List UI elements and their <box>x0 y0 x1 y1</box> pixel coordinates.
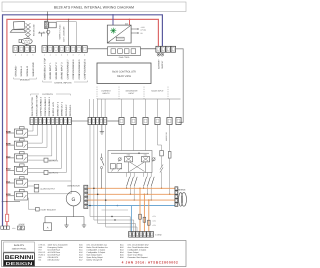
svg-text:SUPPLY: SUPPLY <box>161 60 164 69</box>
ground symbol 1 <box>64 223 68 228</box>
svg-text:Mains Circuit Breaker Aux: Mains Circuit Breaker Aux <box>87 246 108 249</box>
wire relay AC3 contacts <box>28 155 52 157</box>
svg-text:KA6: KA6 <box>79 246 83 249</box>
svg-text:BA1: BA1 <box>120 243 124 246</box>
svg-text:AC1: AC1 <box>6 180 11 183</box>
svg-text:GEN CONTACTOR: GEN CONTACTOR <box>31 97 34 116</box>
legend box <box>2 241 187 267</box>
wires CT secondary returns <box>90 217 130 232</box>
arrow 0V output <box>131 32 137 34</box>
svg-text:KA7: KA7 <box>79 259 83 262</box>
svg-text:FUSE 4: FUSE 4 <box>39 254 45 257</box>
contactor coil KG <box>142 157 150 162</box>
logo BERNINI DESIGN <box>4 253 35 266</box>
panel name cell <box>4 242 35 252</box>
svg-text:KM1: KM1 <box>127 154 131 157</box>
svg-text:SUPPLY +12VDC: SUPPLY +12VDC <box>59 24 62 40</box>
svg-text:BA3: BA3 <box>120 248 124 251</box>
wire RS-485 zigzag link <box>26 23 31 37</box>
relay KG6 <box>20 189 25 191</box>
CT1 <box>139 214 142 219</box>
svg-text:KM6: KM6 <box>6 130 11 133</box>
wire battery negative rail (blue) <box>3 15 163 226</box>
contactor box <box>108 151 152 173</box>
svg-text:Aux. Circuit Breaker drive: Aux. Circuit Breaker drive <box>128 246 149 249</box>
wire interlock cross <box>130 162 145 172</box>
svg-text:Configurable -2 Output: Configurable -2 Output <box>87 251 106 254</box>
wire CT drop L2 <box>144 194 146 196</box>
wire drop from negative rail <box>47 14 49 16</box>
svg-text:CURRENT: CURRENT <box>101 90 111 93</box>
svg-text:KM5: KM5 <box>6 143 11 146</box>
wire negative tap to PSU <box>112 14 114 16</box>
wire cord to battery terminals <box>141 48 156 50</box>
svg-text:BA2: BA2 <box>120 246 124 249</box>
svg-text:EMERGENCY STOP: EMERGENCY STOP <box>43 57 46 79</box>
svg-text:CONFIGURABLE 5: CONFIGURABLE 5 <box>78 59 81 80</box>
svg-text:Gen. Circuit Breaker Aux: Gen. Circuit Breaker Aux <box>87 243 107 246</box>
svg-text:160kVA PANEL: 160kVA PANEL <box>12 248 28 251</box>
terminal strip outputs <box>30 118 34 125</box>
svg-text:Spare Relay Output: Spare Relay Output <box>87 256 104 259</box>
svg-text:SIGNAL A: SIGNAL A <box>20 66 23 77</box>
svg-text:KM: KM <box>39 256 42 259</box>
wire battery to controller <box>176 49 183 123</box>
svg-text:SPARE OUT 2: SPARE OUT 2 <box>56 101 59 116</box>
wire relay AC1 contacts <box>28 180 72 182</box>
terminal strip TB2 (digital inputs) <box>42 46 47 53</box>
svg-text:FB1-2-3: FB1-2-3 <box>39 251 46 254</box>
svg-text:BATTERY: BATTERY <box>158 59 161 69</box>
wire positive tap to PSU <box>129 19 131 21</box>
alarm output contacts <box>34 184 39 187</box>
svg-text:BATT. CHARGER: BATT. CHARGER <box>63 26 66 42</box>
svg-text:RS-485 LINK: RS-485 LINK <box>32 24 35 36</box>
svg-text:KA2: KA2 <box>79 251 83 254</box>
wire contactor top bus <box>111 152 149 154</box>
svg-text:AC3: AC3 <box>6 155 11 158</box>
svg-text:CONFIGURABLE 1: CONFIGURABLE 1 <box>48 96 51 116</box>
svg-text:6A 10X38 Fuse: 6A 10X38 Fuse <box>48 254 61 257</box>
bracket DIGITAL INPUTS <box>43 81 53 83</box>
terminal block bottom-left <box>1 226 4 229</box>
relay KG2 <box>20 164 25 166</box>
svg-text:OUTPUT 3: OUTPUT 3 <box>49 159 58 162</box>
svg-text:ALARM OUTPUT: ALARM OUTPUT <box>40 187 56 190</box>
terminal strip load <box>129 232 132 238</box>
svg-text:SPARE INPUT 2: SPARE INPUT 2 <box>55 62 58 80</box>
svg-text:KA1: KA1 <box>79 248 83 251</box>
svg-text:G: G <box>72 197 76 203</box>
svg-text:PWR CORD: PWR CORD <box>119 56 130 59</box>
svg-text:INPUT: INPUT <box>129 92 136 95</box>
svg-text:Spare Output: Spare Output <box>128 251 139 254</box>
antenna symbol <box>38 32 45 34</box>
svg-text:GENERATOR: GENERATOR <box>67 184 80 187</box>
wires terminals to contactor box <box>121 125 123 151</box>
svg-text:BA6: BA6 <box>120 256 124 259</box>
fuse F1 on positive rail <box>6 214 9 221</box>
svg-text:Battery Charge Off: Battery Charge Off <box>87 259 103 262</box>
relay KM6 <box>20 127 25 129</box>
battery posts <box>157 53 160 56</box>
svg-text:GEN.BLOCK: GEN.BLOCK <box>48 256 60 259</box>
wire CT drop L1 <box>139 188 141 190</box>
svg-text:A: A <box>47 226 49 229</box>
screw terminals row <box>119 118 124 125</box>
bracket MODBUS <box>14 78 21 80</box>
wire phase L1 (orange) <box>88 187 175 189</box>
svg-text:KA3: KA3 <box>79 254 83 257</box>
CT2 <box>143 217 146 222</box>
svg-text:START REQUEST: START REQUEST <box>40 208 56 211</box>
svg-text:MAINS CONTACTOR: MAINS CONTACTOR <box>35 95 38 117</box>
wire relay KG2 contacts <box>28 167 62 169</box>
wire neutral (blue) <box>88 205 175 207</box>
svg-text:F67: F67 <box>39 248 42 251</box>
terminal strip TB1 (modbus) <box>13 46 18 53</box>
contactor KM main contacts <box>126 173 128 177</box>
title block <box>2 2 186 12</box>
svg-text:DIGITAL INPUTS: DIGITAL INPUTS <box>55 82 72 85</box>
laptop PC <box>10 21 25 32</box>
svg-text:Be28 ATS: Be28 ATS <box>14 244 25 247</box>
arrow +12V output <box>131 28 137 30</box>
resistor in PSU <box>116 37 124 40</box>
svg-text:CONFIGURABLE 6: CONFIGURABLE 6 <box>72 59 75 80</box>
svg-text:OUTPUTS: OUTPUTS <box>42 93 53 96</box>
svg-text:KM1: KM1 <box>39 246 43 249</box>
svg-text:GROUND 1: GROUND 1 <box>69 104 72 116</box>
ground symbol 2 <box>82 223 86 228</box>
LED indicator green <box>110 28 116 34</box>
svg-text:KA5: KA5 <box>79 243 83 246</box>
wire tap from positive rail <box>68 19 70 21</box>
svg-text:MAINS: MAINS <box>178 188 185 191</box>
wires sense drops <box>89 125 91 217</box>
mains cable gland <box>179 193 183 207</box>
wire generator earth <box>73 206 75 217</box>
svg-text:Gen. Circuit Breaker drive: Gen. Circuit Breaker drive <box>128 243 149 246</box>
svg-text:REAR VIEW: REAR VIEW <box>117 75 132 78</box>
wire converter to terminal <box>56 22 76 46</box>
svg-text:OUTPUT 4: OUTPUT 4 <box>49 172 58 175</box>
svg-text:BE28 ATS PANEL INTERNAL WIRING: BE28 ATS PANEL INTERNAL WIRING DIAGRAM <box>54 6 134 10</box>
wire neutral to load <box>117 205 119 207</box>
svg-text:SHIELD GND: SHIELD GND <box>32 62 35 76</box>
svg-text:DESIGN: DESIGN <box>6 261 33 266</box>
surge arrester A1 <box>44 223 52 231</box>
aux contact left <box>118 158 121 161</box>
terminal strip mains <box>175 187 178 191</box>
svg-text:GROUND 2: GROUND 2 <box>65 104 68 116</box>
svg-text:CONFIGURABLE 4: CONFIGURABLE 4 <box>84 59 87 80</box>
svg-text:KG6: KG6 <box>6 193 11 196</box>
generator G1 <box>66 191 81 206</box>
wire relay KM6 contacts <box>28 130 34 132</box>
wire relay KM5 contacts <box>28 142 43 144</box>
ground at sense terminal <box>101 125 103 130</box>
output 4 indicator <box>28 172 45 174</box>
svg-text:4 JAN 2016: ATSBC2800002: 4 JAN 2016: ATSBC2800002 <box>122 261 179 265</box>
wires relay bus verticals <box>32 125 34 132</box>
svg-text:BA5: BA5 <box>120 254 124 257</box>
svg-text:SIGNAL B: SIGNAL B <box>26 66 29 77</box>
terminal strip sense <box>88 118 91 125</box>
wire positive rail below fuse <box>6 222 8 227</box>
svg-text:Generator Start Request: Generator Start Request <box>128 256 149 259</box>
power cord socket <box>108 47 141 56</box>
wire CT drop L3 <box>148 199 150 201</box>
svg-text:KG2: KG2 <box>6 168 11 171</box>
wire battery positive rail (red) <box>7 19 159 214</box>
svg-text:KA4: KA4 <box>79 256 83 259</box>
gen sense contact <box>157 142 159 145</box>
selector switch <box>101 154 103 158</box>
svg-text:KG1: KG1 <box>144 154 147 157</box>
CT3 <box>148 220 151 225</box>
svg-text:INPUTS: INPUTS <box>103 92 111 95</box>
svg-text:Main Output Alarm: Main Output Alarm <box>87 254 103 257</box>
svg-text:MAINS INPUT: MAINS INPUT <box>151 90 164 93</box>
svg-text:SPARE INPUT 1: SPARE INPUT 1 <box>49 62 52 80</box>
svg-text:4A 10X38 Fuse: 4A 10X38 Fuse <box>48 251 61 254</box>
svg-text:SPARE INPUT 3: SPARE INPUT 3 <box>61 62 64 80</box>
svg-text:Configurable -3 Output: Configurable -3 Output <box>128 248 147 251</box>
wire phase L2 (orange) <box>88 193 175 195</box>
svg-text:GROUND -: GROUND - <box>14 65 17 77</box>
svg-text:6A 10X38 Fuse: 6A 10X38 Fuse <box>48 248 61 251</box>
svg-text:Configurable -1 Output: Configurable -1 Output <box>87 248 106 251</box>
wire sense strip to singles <box>107 120 119 122</box>
svg-text:BA4: BA4 <box>120 251 124 254</box>
bracket input groups <box>96 87 98 100</box>
terminal block battery <box>156 46 161 52</box>
aux contact blocks <box>111 164 116 169</box>
svg-text:MODBUS: MODBUS <box>20 79 30 82</box>
connector DB9 to PC <box>21 38 32 44</box>
svg-text:CONFIGURABLE 2: CONFIGURABLE 2 <box>44 96 47 116</box>
wire to power cord <box>88 48 108 50</box>
junction dots on phases <box>93 188 95 190</box>
relay KM5 <box>20 139 25 141</box>
start request contact <box>28 198 36 209</box>
RS485 converter U2 <box>45 21 47 23</box>
output 3 indicator <box>28 159 45 161</box>
svg-text:Emergency Switch: Emergency Switch <box>48 246 63 249</box>
svg-text:100/5 Turns Transformer: 100/5 Turns Transformer <box>48 243 69 246</box>
transistor Q1 <box>47 30 50 33</box>
wire outputs to sense strip <box>72 120 88 122</box>
contactor coil KM <box>125 157 133 162</box>
aux contact right <box>152 158 155 161</box>
relay AC3 <box>20 152 25 154</box>
wire negative rail tap <box>2 201 4 203</box>
mains sense fuse F7 <box>169 145 171 152</box>
wires controller to screw terminals <box>121 99 123 118</box>
svg-text:CTR 4:1: CTR 4:1 <box>39 243 46 246</box>
svg-text:CONFIGURABLE 3: CONFIGURABLE 3 <box>40 96 43 116</box>
relay AC1 <box>20 177 25 179</box>
svg-text:SUPPLY +12V: SUPPLY +12V <box>52 101 55 116</box>
svg-text:GEN.BLOCK2: GEN.BLOCK2 <box>48 259 60 262</box>
wires controller to sense terminals <box>89 99 91 118</box>
wire phase L3 (orange) <box>88 199 175 201</box>
bracket OUTPUTS <box>31 94 40 96</box>
contactor KG main contacts <box>143 173 145 177</box>
svg-text:Be28 CONTROLLER: Be28 CONTROLLER <box>112 70 136 73</box>
svg-text:LOAD: LOAD <box>156 234 162 237</box>
terminal strip generator <box>84 185 88 189</box>
controller U1 Be28 <box>97 63 151 84</box>
svg-text:Spare Crcpt Relay: Spare Crcpt Relay <box>128 254 143 257</box>
svg-text:MAINS OK: MAINS OK <box>165 131 168 141</box>
wire DB9 to terminal <box>26 44 28 45</box>
svg-text:GENERATOR: GENERATOR <box>126 90 138 93</box>
svg-text:SPARE: SPARE <box>19 223 26 226</box>
svg-text:SPARE OUT 1: SPARE OUT 1 <box>61 101 64 116</box>
wire relay KG6 contacts <box>28 193 72 195</box>
power supply PSU1 <box>107 25 131 43</box>
svg-text:CONFIGURABLE 7: CONFIGURABLE 7 <box>66 59 69 80</box>
